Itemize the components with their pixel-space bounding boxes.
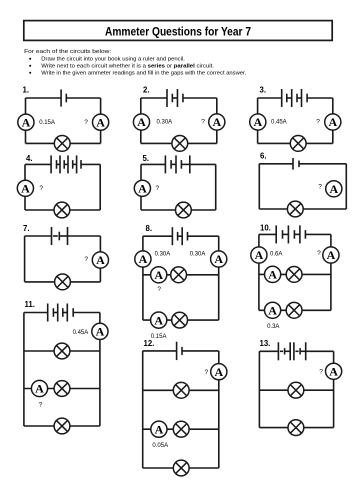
svg-text:4.: 4.: [26, 154, 33, 163]
svg-text:7.: 7.: [23, 224, 30, 233]
svg-text:A: A: [328, 115, 337, 129]
svg-text:A: A: [96, 253, 105, 267]
svg-text:A: A: [327, 248, 336, 262]
svg-text:A: A: [268, 268, 277, 282]
svg-text:A: A: [22, 115, 31, 129]
svg-text:1.: 1.: [23, 86, 30, 95]
svg-text:12.: 12.: [144, 339, 155, 348]
svg-text:?: ?: [318, 184, 322, 191]
svg-text:0.30A: 0.30A: [155, 252, 171, 258]
svg-text:A: A: [154, 268, 163, 282]
svg-text:A: A: [212, 115, 221, 129]
svg-text:A: A: [96, 115, 105, 129]
svg-text:0.6A: 0.6A: [270, 252, 282, 258]
svg-text:A: A: [155, 422, 164, 436]
svg-text:A: A: [253, 115, 262, 129]
svg-text:A: A: [154, 313, 163, 327]
svg-text:A: A: [35, 382, 44, 396]
svg-text:A: A: [21, 181, 30, 195]
svg-text:A: A: [214, 252, 223, 266]
svg-text:?: ?: [156, 185, 160, 192]
svg-text:Write in the given ammeter rea: Write in the given ammeter readings and …: [41, 70, 246, 76]
svg-text:11.: 11.: [25, 300, 35, 309]
svg-text:Ammeter Questions for Year 7: Ammeter Questions for Year 7: [105, 25, 251, 39]
svg-text:A: A: [268, 303, 277, 317]
svg-text:0.15A: 0.15A: [39, 120, 55, 126]
svg-text:?: ?: [39, 402, 43, 409]
svg-text:?: ?: [84, 119, 88, 126]
svg-text:6.: 6.: [260, 151, 267, 160]
svg-text:5.: 5.: [143, 154, 150, 163]
svg-text:A: A: [329, 364, 338, 378]
svg-text:0.05A: 0.05A: [152, 443, 168, 449]
svg-text:?: ?: [317, 250, 321, 257]
svg-text:8.: 8.: [146, 224, 153, 233]
svg-text:?: ?: [84, 256, 88, 263]
svg-text:3.: 3.: [260, 85, 267, 94]
svg-text:A: A: [329, 182, 338, 196]
svg-text:A: A: [214, 365, 223, 379]
svg-text:13.: 13.: [260, 339, 271, 348]
svg-text:A: A: [96, 325, 105, 339]
svg-text:10.: 10.: [260, 224, 271, 233]
svg-text:0.45A: 0.45A: [271, 120, 287, 126]
svg-text:?: ?: [201, 119, 205, 126]
svg-text:A: A: [139, 252, 148, 266]
svg-text:Write next to each circuit whe: Write next to each circuit whether it is…: [41, 63, 214, 69]
svg-text:For each of the circuits below: For each of the circuits below:: [24, 49, 112, 55]
svg-text:A: A: [255, 248, 264, 262]
svg-text:?: ?: [157, 286, 161, 293]
svg-text:?: ?: [319, 368, 323, 375]
svg-text:0.3A: 0.3A: [267, 324, 279, 330]
svg-text:A: A: [137, 115, 146, 129]
svg-text:?: ?: [316, 119, 320, 126]
svg-text:?: ?: [205, 369, 209, 376]
svg-text:0.30A: 0.30A: [157, 120, 173, 126]
svg-text:0.45A: 0.45A: [73, 330, 89, 336]
svg-text:?: ?: [39, 185, 43, 192]
svg-text:0.30A: 0.30A: [190, 252, 206, 258]
svg-text:A: A: [138, 181, 147, 195]
svg-text:Draw the circuit into your boo: Draw the circuit into your book using a …: [41, 56, 185, 62]
svg-text:2.: 2.: [143, 86, 150, 95]
